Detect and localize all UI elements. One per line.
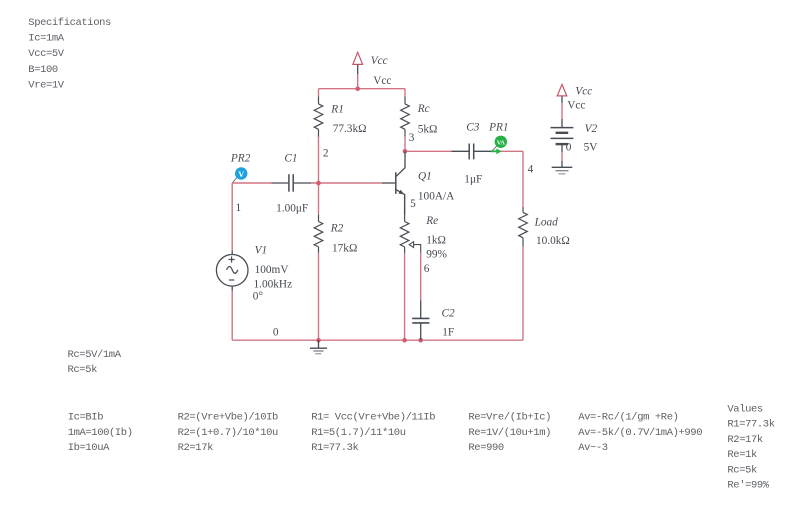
svg-text:100A/A: 100A/A (418, 190, 455, 202)
svg-text:Vcc: Vcc (371, 55, 388, 67)
svg-text:R1= Vcc(Vre+Vbe)/11Ib: R1= Vcc(Vre+Vbe)/11Ib (311, 412, 435, 424)
junction node Vcc (355, 86, 360, 91)
capacitor C1 (272, 174, 312, 192)
wire V2 bottom (561, 152, 563, 161)
wire Vcc rail (319, 88, 406, 90)
junction ground rail at C2 (418, 338, 423, 343)
svg-text:R1=5(1.7)/11*10u: R1=5(1.7)/11*10u (311, 427, 406, 439)
wire R2 top (318, 183, 320, 215)
svg-text:Ib=10uA: Ib=10uA (68, 442, 110, 454)
svg-text:Load: Load (534, 216, 559, 228)
junction node 2 (316, 181, 321, 186)
svg-text:Vcc=5V: Vcc=5V (28, 48, 65, 60)
svg-text:10.0kΩ: 10.0kΩ (536, 235, 570, 247)
wire (232, 74, 562, 340)
wire load bottom (522, 246, 524, 340)
svg-text:B=100: B=100 (28, 64, 58, 76)
svg-text:C3: C3 (466, 121, 480, 133)
svg-text:Re=990: Re=990 (468, 442, 504, 454)
note specifications block (28, 17, 111, 91)
svg-text:Av=-5k/(0.7V/1mA)+990: Av=-5k/(0.7V/1mA)+990 (578, 427, 702, 439)
svg-text:PR2: PR2 (230, 152, 251, 164)
probe PR2 (233, 167, 248, 182)
wire R1 bottom to node 2 (318, 137, 320, 183)
svg-text:Rc=5V/1mA: Rc=5V/1mA (68, 349, 122, 361)
svg-text:1μF: 1μF (464, 173, 482, 185)
svg-text:3: 3 (409, 132, 415, 144)
lead Vcc symbol (left) (357, 64, 359, 74)
wire node3 to C3 (405, 150, 452, 152)
svg-text:R1=77.3k: R1=77.3k (311, 442, 358, 454)
svg-text:0°: 0° (253, 290, 263, 302)
note equations column 3 (311, 412, 435, 454)
svg-text:Vcc: Vcc (373, 75, 391, 87)
svg-text:R2: R2 (330, 223, 344, 235)
wire base left segment (232, 182, 271, 184)
resistor R2 (314, 215, 323, 253)
svg-text:R2=(Vre+Vbe)/10Ib: R2=(Vre+Vbe)/10Ib (178, 412, 278, 424)
svg-text:Ic=BIb: Ic=BIb (68, 412, 104, 424)
svg-text:100mV: 100mV (255, 264, 290, 276)
svg-text:R2=17k: R2=17k (727, 434, 763, 446)
svg-text:6: 6 (424, 263, 430, 275)
svg-text:1kΩ: 1kΩ (426, 235, 446, 247)
junction ground rail at Re (402, 338, 407, 343)
resistor R1 (314, 97, 323, 137)
svg-text:R1=77.3k: R1=77.3k (727, 419, 774, 431)
svg-text:VA: VA (497, 139, 506, 146)
svg-text:Values: Values (727, 404, 763, 416)
svg-text:Rc=5k: Rc=5k (727, 464, 757, 476)
wire R1 top (318, 89, 320, 97)
wiper arrow of Re (409, 242, 421, 253)
svg-text:5kΩ: 5kΩ (418, 124, 438, 136)
svg-text:Re: Re (425, 215, 438, 227)
svg-text:0: 0 (273, 326, 279, 338)
svg-text:17kΩ: 17kΩ (332, 242, 357, 254)
note equations column 4 (468, 412, 551, 454)
source V1 (216, 251, 248, 291)
wire Re bottom (404, 253, 406, 340)
svg-text:Av~-3: Av~-3 (578, 442, 608, 454)
svg-text:1mA=100(Ib): 1mA=100(Ib) (68, 427, 133, 439)
wire wiper down (420, 253, 422, 301)
svg-text:5: 5 (410, 198, 416, 210)
svg-text:1: 1 (236, 202, 242, 214)
svg-text:V2: V2 (585, 123, 598, 135)
wire load top (522, 151, 524, 207)
svg-text:1F: 1F (442, 327, 454, 339)
note values block (727, 404, 774, 492)
svg-text:Re=Vre/(Ib+Ic): Re=Vre/(Ib+Ic) (468, 412, 551, 424)
svg-text:5V: 5V (584, 142, 599, 154)
note equations column 2 (178, 412, 278, 454)
wire R2 bottom (318, 253, 320, 341)
potentiometer Re (400, 194, 409, 253)
wire bottom rail (232, 339, 523, 341)
svg-text:Ic=1mA: Ic=1mA (28, 33, 65, 45)
svg-text:Vcc: Vcc (575, 85, 592, 97)
wire C3 to corner node 4 (501, 150, 524, 152)
power Vcc symbol (right, above V2) (557, 84, 567, 96)
wire V1 top (231, 183, 233, 251)
svg-text:Av=-Rc/(1/gm +Re): Av=-Rc/(1/gm +Re) (578, 412, 678, 424)
svg-text:0: 0 (566, 142, 572, 154)
junction node 3 (403, 149, 408, 154)
capacitor C2 (412, 301, 429, 341)
wire Rc top (404, 89, 406, 97)
note equations column 1 (68, 412, 133, 454)
wire C1 to base (311, 182, 382, 184)
svg-text:Vcc: Vcc (567, 100, 585, 112)
svg-text:Re=1k: Re=1k (727, 449, 757, 461)
resistor Rc (401, 97, 410, 137)
svg-text:V: V (238, 169, 245, 179)
svg-text:99%: 99% (426, 249, 447, 261)
svg-text:Specifications: Specifications (28, 17, 111, 29)
ground (below V2) (552, 167, 573, 174)
svg-text:R2=17k: R2=17k (178, 442, 214, 454)
svg-text:Rc=5k: Rc=5k (68, 364, 98, 376)
power Vcc symbol (left) (353, 52, 363, 64)
note Rc calc block (68, 349, 122, 376)
svg-text:Q1: Q1 (418, 170, 432, 182)
svg-text:V1: V1 (255, 245, 268, 257)
svg-text:2: 2 (323, 148, 329, 160)
svg-text:4: 4 (528, 163, 534, 175)
note equations column 5 (578, 412, 702, 454)
capacitor C3 (452, 144, 492, 160)
wire Vcc stub to rail (357, 74, 359, 89)
svg-text:Re=1V/(10u+1m): Re=1V/(10u+1m) (468, 427, 551, 439)
ground (bottom rail) (310, 340, 327, 354)
svg-text:Re'=99%: Re'=99% (727, 480, 769, 492)
battery V2 (551, 96, 574, 167)
svg-text:Rc: Rc (417, 103, 430, 115)
svg-text:PR1: PR1 (488, 121, 508, 133)
probe PR1 (491, 136, 507, 155)
junction ground rail at R2 (316, 338, 321, 343)
resistor Load (519, 207, 528, 246)
svg-text:C2: C2 (442, 308, 456, 320)
svg-text:R2=(1+0.7)/10*10u: R2=(1+0.7)/10*10u (178, 427, 278, 439)
wire V2 top (561, 103, 563, 119)
wire Rc bottom to node 3 (404, 137, 406, 152)
svg-text:1.00kHz: 1.00kHz (254, 278, 293, 290)
svg-text:1.00μF: 1.00μF (276, 202, 308, 214)
svg-text:Vre=1V: Vre=1V (28, 79, 65, 91)
wire V1 bottom (231, 291, 233, 340)
transistor Q1 (382, 151, 405, 214)
svg-text:C1: C1 (284, 152, 297, 164)
svg-text:R1: R1 (330, 103, 344, 115)
svg-text:77.3kΩ: 77.3kΩ (333, 123, 367, 135)
